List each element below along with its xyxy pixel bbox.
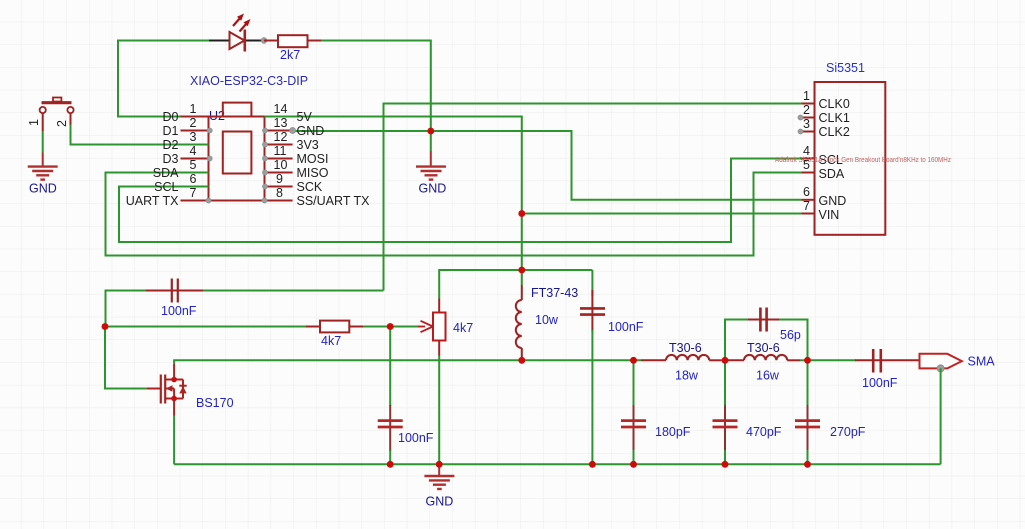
ground symbol center <box>416 131 446 196</box>
U2 pin 7 UART TX <box>126 186 211 208</box>
svg-text:VIN: VIN <box>819 208 840 222</box>
svg-text:SDA: SDA <box>153 166 179 180</box>
junction dot LPF mid <box>722 357 729 364</box>
capacitor C4 56p <box>725 308 808 361</box>
svg-text:GND: GND <box>297 124 325 138</box>
U2 pin 3 D2 <box>163 130 209 152</box>
junction dot L1 bottom <box>519 357 526 364</box>
U2 pin 13 GND <box>262 116 324 138</box>
U1 pin 3 CLK2 <box>798 117 850 139</box>
svg-text:3: 3 <box>803 117 810 131</box>
svg-text:1: 1 <box>803 89 810 103</box>
wire trimmer bottom to rail <box>438 356 440 465</box>
svg-text:7: 7 <box>803 199 810 213</box>
svg-text:100nF: 100nF <box>862 376 898 390</box>
svg-text:9: 9 <box>276 172 283 186</box>
svg-text:2k7: 2k7 <box>280 48 300 62</box>
U2 pin 1 D0 <box>163 102 209 124</box>
wire D0 to LED <box>118 41 210 117</box>
svg-text:T30-6: T30-6 <box>669 341 702 355</box>
capacitor C9 100nF gate <box>378 327 434 465</box>
svg-text:2: 2 <box>55 120 69 127</box>
ground symbol bottom <box>424 464 454 508</box>
svg-text:GND: GND <box>419 182 447 196</box>
U2 pin 10 MISO <box>262 158 328 180</box>
junction dot tank top <box>519 267 526 274</box>
ground rail <box>174 463 941 465</box>
wire trimmer top to tank <box>439 270 592 299</box>
push button S1 <box>27 98 74 132</box>
svg-text:D2: D2 <box>163 138 179 152</box>
svg-text:Si5351: Si5351 <box>826 61 865 75</box>
svg-text:6: 6 <box>190 172 197 186</box>
svg-text:10: 10 <box>274 158 288 172</box>
svg-text:GND: GND <box>819 194 847 208</box>
wire 2k7 to GND net <box>321 41 431 132</box>
svg-text:270pF: 270pF <box>830 425 866 439</box>
svg-text:1: 1 <box>190 102 197 116</box>
U2 pin 6 SCL <box>154 172 208 194</box>
U2 pin 11 MOSI <box>262 144 328 166</box>
wire overlay SCL pin <box>181 186 209 188</box>
svg-text:T30-6: T30-6 <box>747 341 780 355</box>
junction dots rail <box>387 461 394 468</box>
svg-text:XIAO-ESP32-C3-DIP: XIAO-ESP32-C3-DIP <box>190 74 308 88</box>
wire to trimmer wiper <box>390 326 419 328</box>
svg-text:180pF: 180pF <box>655 425 691 439</box>
svg-text:100nF: 100nF <box>398 431 434 445</box>
svg-text:3V3: 3V3 <box>297 138 319 152</box>
svg-text:BS170: BS170 <box>196 396 234 410</box>
U1 pin 4 SCL <box>802 144 843 167</box>
svg-text:CLK0: CLK0 <box>819 97 850 111</box>
junction dot LPF out <box>804 357 811 364</box>
capacitor C6 470pF <box>713 360 782 464</box>
svg-text:MOSI: MOSI <box>297 152 329 166</box>
LED D1 <box>209 14 264 52</box>
svg-text:1: 1 <box>27 119 41 126</box>
svg-text:SMA: SMA <box>968 355 996 369</box>
IC U2 XIAO-ESP32-C3-DIP <box>190 74 308 201</box>
U1 pin 1 CLK0 <box>802 89 850 111</box>
svg-text:18w: 18w <box>675 369 699 383</box>
wire SCL net <box>119 159 802 243</box>
U2 pin 14 5V <box>265 102 313 124</box>
wire VIN <box>522 213 802 215</box>
wire 5V <box>265 117 522 271</box>
wire GND pin13 to Si5351 GND <box>293 131 802 200</box>
capacitor C1 100nF coupling <box>106 279 384 327</box>
svg-text:SCK: SCK <box>297 180 323 194</box>
svg-text:100nF: 100nF <box>161 304 197 318</box>
U2 pin 4 D3 <box>163 144 213 166</box>
svg-text:D0: D0 <box>163 110 179 124</box>
svg-text:Adafruit Si5351A Clock Gen Bre: Adafruit Si5351A Clock Gen Breakout Boar… <box>775 155 951 164</box>
svg-text:470pF: 470pF <box>746 425 782 439</box>
svg-text:3: 3 <box>190 130 197 144</box>
U2 pin 9 SCK <box>262 172 322 194</box>
svg-text:SDA: SDA <box>819 167 845 181</box>
svg-text:GND: GND <box>426 495 454 509</box>
svg-text:MISO: MISO <box>297 166 329 180</box>
svg-text:13: 13 <box>274 116 288 130</box>
wire CLK0 <box>384 104 802 291</box>
wire button to D2 <box>71 124 209 145</box>
svg-text:11: 11 <box>274 144 287 158</box>
capacitor C7 270pF <box>795 360 866 464</box>
svg-text:100nF: 100nF <box>608 320 644 334</box>
wire SDA net <box>106 173 802 256</box>
wire button to GND <box>42 131 44 153</box>
svg-text:6: 6 <box>803 185 810 199</box>
U1 pin 6 GND <box>802 185 847 208</box>
wire drain to RF line <box>174 360 641 364</box>
U2 pin 2 D1 <box>163 116 213 138</box>
svg-text:2: 2 <box>190 116 197 130</box>
U1 pin 5 SDA <box>802 158 845 181</box>
junction grey dot LED-R1 <box>261 38 267 44</box>
junction dot 180pF top <box>630 357 637 364</box>
transistor Q1 BS170 <box>147 364 234 416</box>
junction dot 5V-VIN <box>519 210 526 217</box>
svg-text:2: 2 <box>803 103 810 117</box>
U1 pin 2 CLK1 <box>798 103 850 125</box>
svg-text:4: 4 <box>190 144 197 158</box>
wire source to rail <box>173 416 175 465</box>
trimmer R3 4k7 <box>418 299 473 356</box>
inductor L3 T30-6 <box>725 341 808 383</box>
svg-text:D1: D1 <box>163 124 179 138</box>
wire overlay D2 pin <box>181 144 209 146</box>
resistor R1 2k7 <box>264 35 322 62</box>
svg-text:CLK1: CLK1 <box>819 111 850 125</box>
capacitor C3 100nF tank <box>580 270 644 464</box>
svg-text:4k7: 4k7 <box>321 334 341 348</box>
inductor L2 T30-6 <box>641 341 725 383</box>
svg-text:SS/UART TX: SS/UART TX <box>297 194 371 208</box>
svg-text:16w: 16w <box>756 369 780 383</box>
svg-text:14: 14 <box>274 102 288 116</box>
wire gate <box>105 327 147 389</box>
svg-text:CLK2: CLK2 <box>819 125 850 139</box>
IC U1 Si5351 <box>815 61 886 235</box>
U2 pin 5 SDA <box>153 158 209 180</box>
wire SMA to rail <box>940 368 942 464</box>
resistor R2 4k7 <box>105 321 390 348</box>
U1 pin 7 VIN <box>802 199 840 222</box>
svg-text:7: 7 <box>190 186 197 200</box>
junction dot gate bias <box>102 323 109 330</box>
ground symbol left <box>28 153 58 196</box>
capacitor C5 180pF <box>621 360 691 464</box>
svg-text:10w: 10w <box>535 313 559 327</box>
svg-text:4k7: 4k7 <box>453 321 473 335</box>
svg-text:5: 5 <box>190 158 197 172</box>
svg-text:56p: 56p <box>780 328 801 342</box>
svg-text:12: 12 <box>274 130 288 144</box>
svg-text:GND: GND <box>29 182 57 196</box>
junction dot LED-GND <box>428 128 435 135</box>
svg-text:D3: D3 <box>163 152 179 166</box>
svg-text:5V: 5V <box>297 110 313 124</box>
junction dot R2-C2 <box>387 323 394 330</box>
capacitor C8 100nF output <box>808 349 920 390</box>
svg-text:8: 8 <box>276 186 283 200</box>
wire overlay 5V pin <box>265 116 293 118</box>
connector P1 SMA <box>920 354 996 372</box>
svg-text:SCL: SCL <box>154 180 178 194</box>
svg-text:UART TX: UART TX <box>126 194 179 208</box>
junction dot overlays <box>102 128 811 468</box>
inductor L1 FT37-43 <box>516 270 578 360</box>
U2 pin 12 3V3 <box>262 130 318 152</box>
wire overlay SDA pin <box>181 172 209 174</box>
U2 pin 8 SS/UART TX <box>262 186 370 208</box>
svg-text:FT37-43: FT37-43 <box>531 286 578 300</box>
